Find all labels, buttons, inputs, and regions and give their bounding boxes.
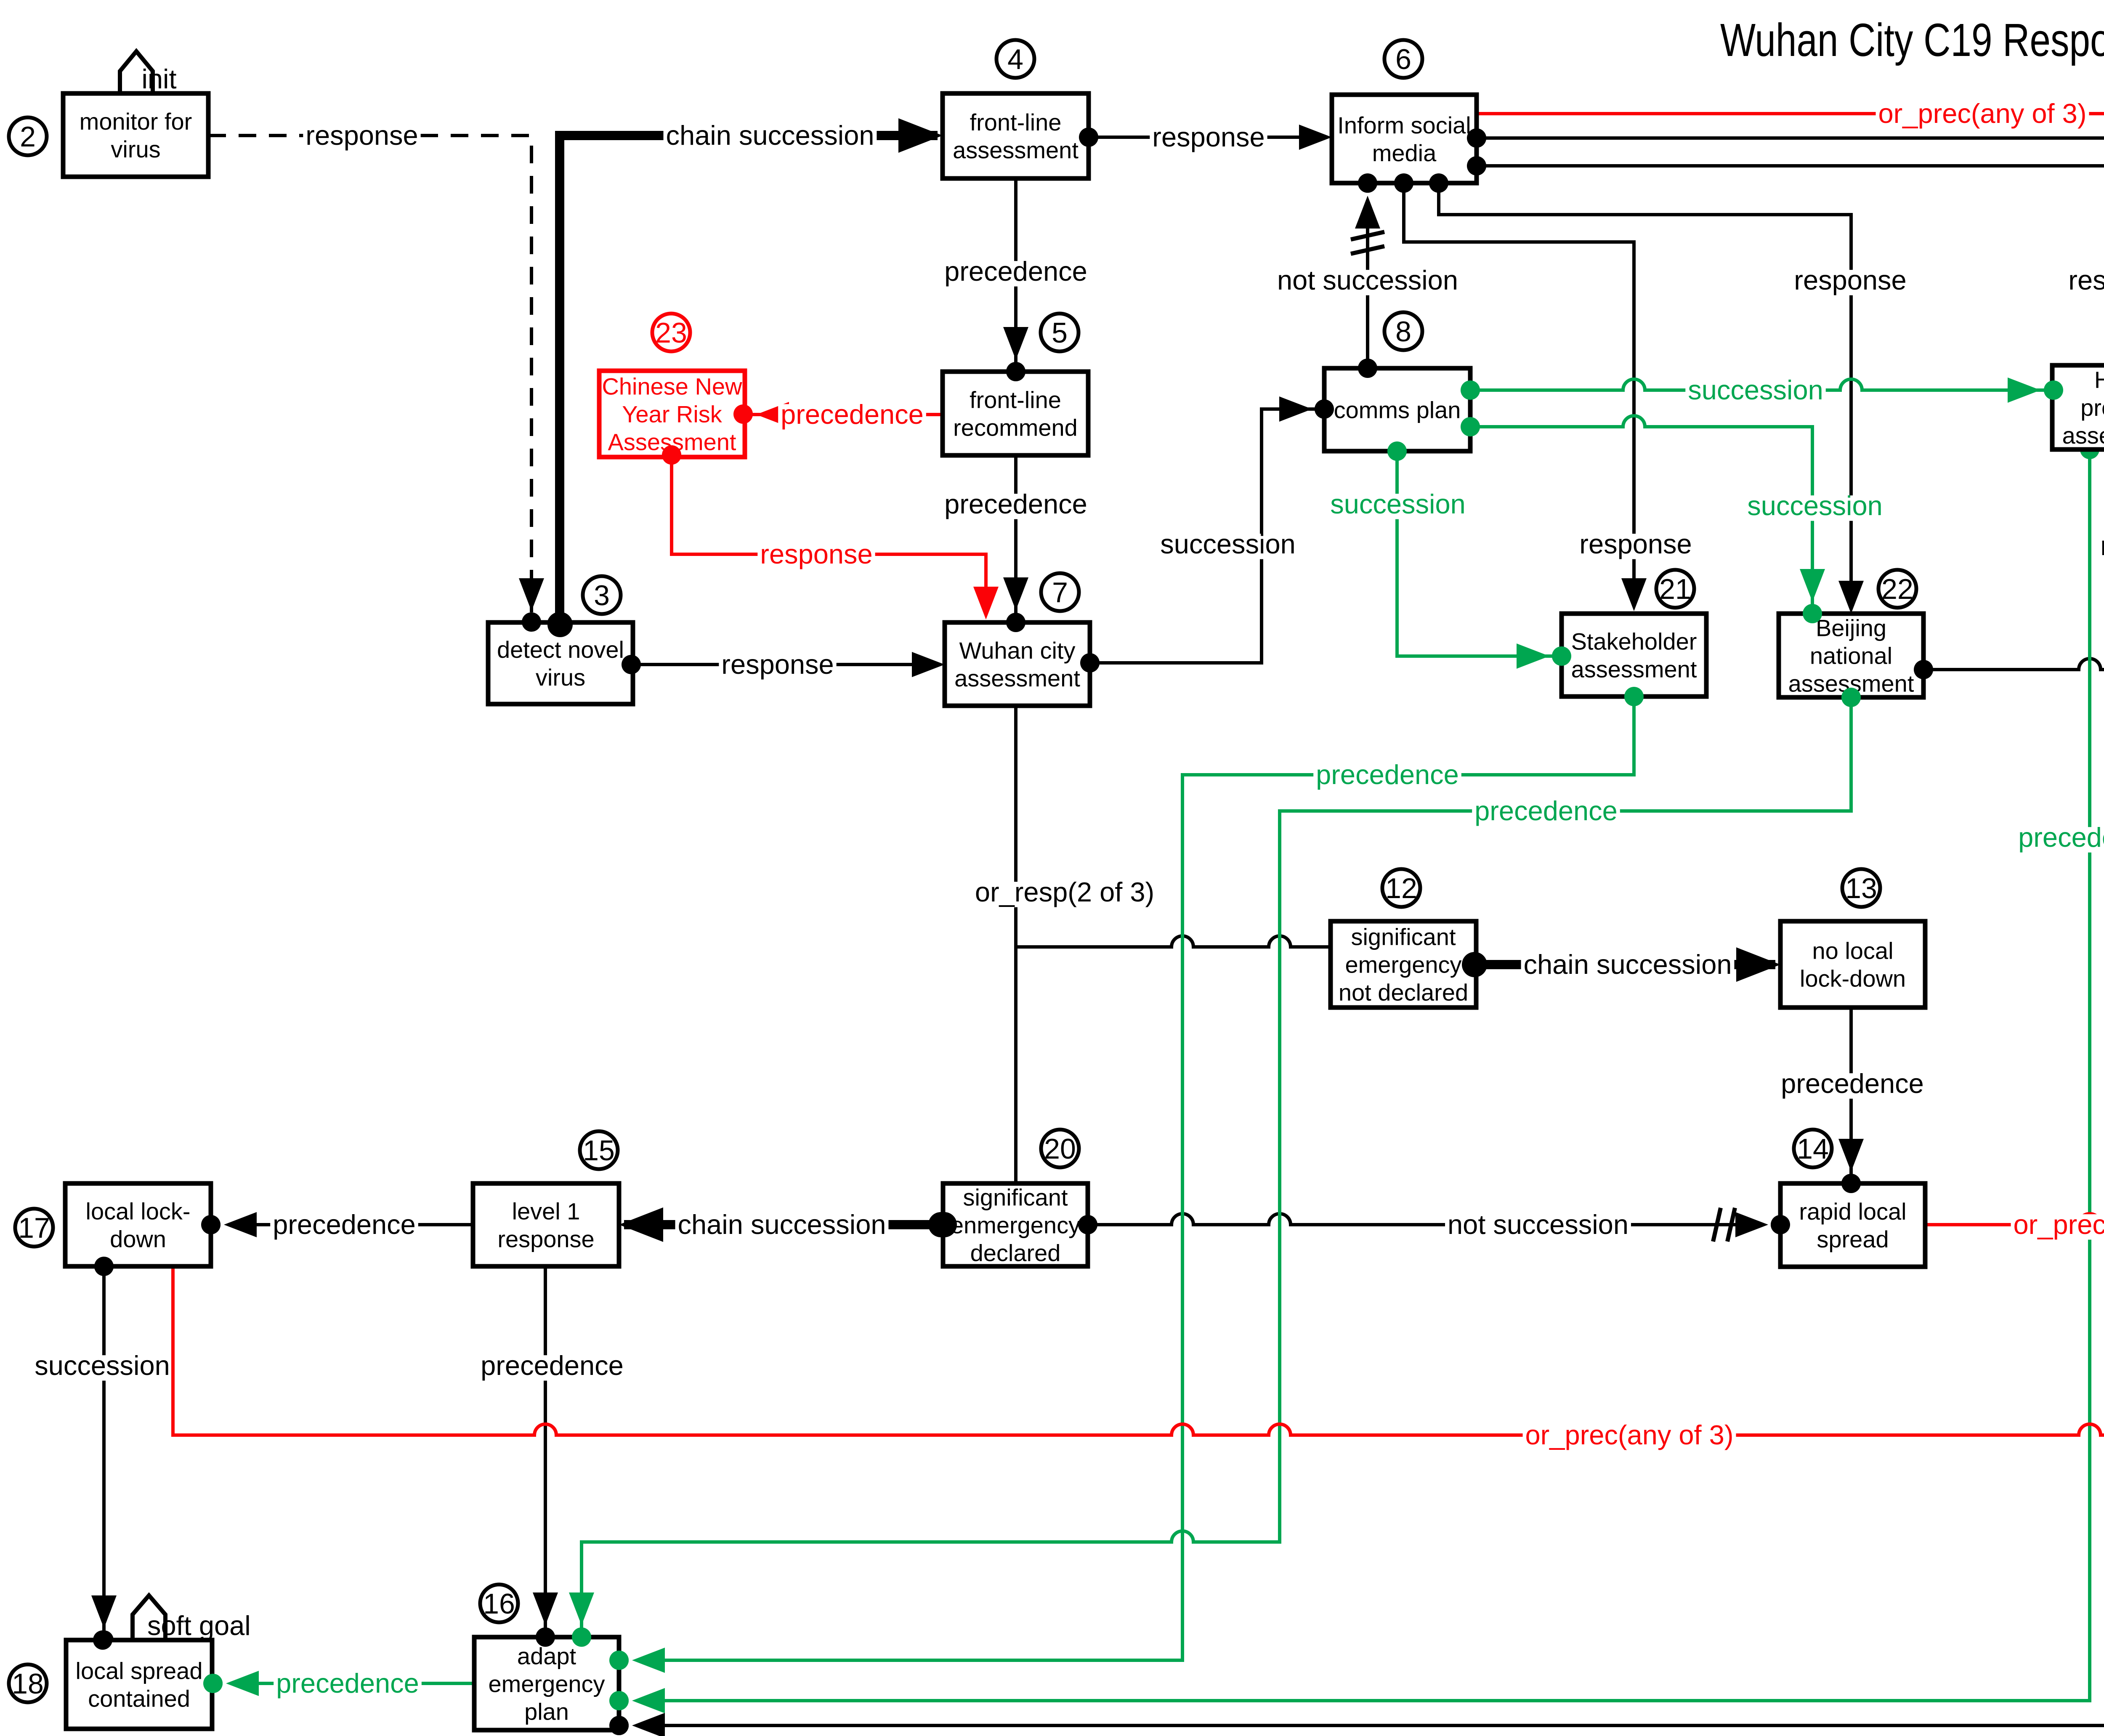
- number 22: [1878, 570, 1916, 608]
- svg-text:Chinese New: Chinese New: [602, 373, 742, 400]
- edge response 23->7 (red): [672, 457, 986, 615]
- edge or_prec 14->24 (red, mid): [1925, 952, 2104, 1225]
- svg-text:enmergency: enmergency: [951, 1212, 1080, 1239]
- edge precedence 21->16 (green): [655, 697, 1634, 1660]
- number 16: [480, 1584, 518, 1622]
- svg-text:chain succession: chain succession: [1524, 949, 1732, 980]
- svg-text:succession: succession: [1160, 529, 1296, 559]
- edge precedence 9->16 (green): [655, 449, 2090, 1701]
- label response 4->6: [1150, 122, 1267, 152]
- svg-text:init: init: [141, 64, 176, 94]
- svg-text:level 1: level 1: [512, 1198, 580, 1225]
- label response 6->21: [1577, 529, 1694, 559]
- svg-text:response: response: [306, 120, 418, 151]
- activity 16: adapt emergency plan: [474, 1637, 619, 1730]
- edge or_prec 17->24 (red, bottom): [173, 962, 2104, 1435]
- edge response 6->22: [1439, 183, 1851, 609]
- edge precedence 5->7: [1014, 455, 1017, 615]
- edge precedence 5->23 (red): [752, 413, 943, 416]
- dots on box 23: [733, 404, 753, 424]
- svg-text:down: down: [110, 1226, 166, 1252]
- label precedence 15->17: [270, 1209, 418, 1240]
- dot on box 4 right: [1079, 128, 1098, 147]
- label chain succession 3->4: [664, 120, 877, 151]
- edge or_prec 6->24 (red, top): [1477, 114, 2104, 962]
- svg-text:succession: succession: [1330, 489, 1466, 519]
- dots on box 16: [536, 1627, 555, 1647]
- svg-text:precedence: precedence: [273, 1209, 416, 1240]
- svg-text:or_prec(any of 3): or_prec(any of 3): [1525, 1420, 1734, 1450]
- edge response 4->6: [1089, 136, 1327, 139]
- edge precedence 15->17: [247, 1223, 473, 1226]
- label or_prec mid: [2011, 1209, 2104, 1240]
- svg-text:precedence: precedence: [481, 1350, 624, 1381]
- number 17: [15, 1209, 53, 1247]
- dots on box 21: [1552, 646, 1571, 666]
- label not succession 20->14: [1445, 1209, 1631, 1240]
- number 20: [1041, 1130, 1079, 1167]
- svg-text:lock-down: lock-down: [1800, 965, 1906, 992]
- label response 2->3: [303, 120, 420, 151]
- activity 3: detect novel virus: [488, 622, 633, 704]
- svg-text:precedence: precedence: [1316, 759, 1459, 790]
- svg-text:spread: spread: [1817, 1226, 1889, 1252]
- svg-text:emergency: emergency: [488, 1671, 605, 1697]
- svg-text:succession: succession: [1747, 490, 1883, 521]
- svg-text:local spread: local spread: [76, 1658, 203, 1684]
- svg-text:no local: no local: [1812, 938, 1893, 964]
- edge succession 17->18: [102, 1266, 106, 1636]
- edge response 2->3 (dashed): [208, 136, 531, 612]
- label response 9->10: [2098, 530, 2104, 561]
- edge response 6->21: [1404, 183, 1634, 607]
- activity 15: level 1 response: [473, 1183, 619, 1266]
- edge not succession 8->6: [1366, 200, 1369, 368]
- svg-text:precedence: precedence: [1781, 1068, 1924, 1099]
- edge precedence 13->14: [1849, 1008, 1853, 1177]
- label response 6->22: [1791, 265, 1909, 295]
- dots on box 3: [522, 612, 541, 632]
- svg-text:or_resp(2 of 3): or_resp(2 of 3): [975, 877, 1154, 907]
- dots on box 20: [932, 1212, 957, 1237]
- edge response 3->7: [631, 663, 940, 666]
- number 5: [1041, 314, 1079, 351]
- svg-text:21: 21: [1659, 573, 1691, 605]
- svg-text:assessment: assessment: [954, 665, 1080, 691]
- soft goal 18: local spread contained: [66, 1640, 212, 1729]
- svg-text:assessment: assessment: [1571, 656, 1697, 683]
- svg-text:3: 3: [594, 580, 610, 611]
- edge precedence 15->16: [544, 1266, 547, 1630]
- svg-text:virus: virus: [111, 136, 160, 162]
- svg-text:response: response: [1579, 529, 1692, 559]
- svg-text:15: 15: [583, 1135, 615, 1167]
- svg-text:succession: succession: [1688, 375, 1823, 405]
- svg-text:chain succession: chain succession: [666, 120, 874, 151]
- activity 2: monitor for virus: [63, 93, 208, 177]
- label precedence 4->5: [942, 256, 1090, 287]
- svg-text:front-line: front-line: [970, 387, 1061, 413]
- svg-text:Inform social: Inform social: [1337, 112, 1471, 138]
- init marker on box 2: [120, 51, 153, 98]
- dot on box 5 top: [1006, 362, 1025, 381]
- label chain succession 20->15: [675, 1209, 889, 1240]
- edge succession 8->9 (green): [1470, 379, 2048, 390]
- svg-text:precedence: precedence: [2018, 822, 2104, 853]
- svg-text:detect novel: detect novel: [497, 636, 624, 663]
- svg-text:emergency: emergency: [1345, 952, 1461, 978]
- label precedence 13->14: [1778, 1068, 1926, 1099]
- svg-text:18: 18: [12, 1668, 44, 1700]
- label response 3->7: [719, 649, 836, 680]
- number 12: [1382, 869, 1420, 907]
- svg-text:Year Risk: Year Risk: [622, 401, 723, 428]
- activity 6: Inform social media: [1332, 95, 1477, 183]
- svg-text:local lock-: local lock-: [86, 1198, 191, 1225]
- edge or_resp 7->20: [1014, 706, 1017, 1183]
- svg-text:13: 13: [1845, 872, 1877, 904]
- label or_resp(2 of 3): [972, 877, 1157, 907]
- dots on box 14: [1841, 1174, 1861, 1193]
- svg-text:media: media: [1372, 140, 1437, 166]
- svg-text:response: response: [760, 539, 872, 569]
- svg-text:precedence: precedence: [1474, 795, 1618, 826]
- number 8: [1384, 312, 1422, 350]
- svg-text:front-line: front-line: [970, 109, 1062, 136]
- svg-text:not succession: not succession: [1448, 1209, 1628, 1240]
- svg-text:chain succession: chain succession: [678, 1209, 886, 1240]
- label succession 8->22: [1745, 490, 1885, 521]
- svg-text:12: 12: [1385, 872, 1417, 904]
- svg-text:succession: succession: [35, 1350, 170, 1381]
- edge or_resp branch ->12: [1016, 936, 1331, 947]
- activity 9: Hubei province assessment: [2052, 365, 2104, 449]
- edge chain succession 20->15: [624, 1220, 941, 1229]
- edge chain succession 12->13: [1474, 960, 1775, 969]
- dots on box 7: [1006, 613, 1025, 632]
- svg-text:22: 22: [1881, 573, 1913, 605]
- svg-text:response: response: [1152, 122, 1265, 152]
- dot on box 12 right: [1462, 952, 1487, 977]
- svg-text:response: response: [2068, 265, 2104, 295]
- label precedence 22->16: [1472, 795, 1620, 826]
- label response 6->9: [2066, 265, 2104, 295]
- svg-text:significant: significant: [963, 1184, 1068, 1211]
- svg-text:not declared: not declared: [1339, 979, 1468, 1006]
- activity 4: front-line assessment: [943, 93, 1089, 178]
- svg-text:14: 14: [1797, 1133, 1829, 1165]
- edge precedence 10->16: [655, 697, 2104, 1725]
- label precedence 16->18: [274, 1668, 422, 1699]
- svg-text:2: 2: [20, 121, 36, 153]
- edge succession 8->22 (green): [1470, 416, 1812, 608]
- edge not succession 20->14: [1088, 1214, 1744, 1225]
- svg-text:monitor for: monitor for: [80, 108, 192, 135]
- svg-text:response: response: [2100, 530, 2104, 561]
- svg-text:Hubei: Hubei: [2094, 367, 2104, 393]
- svg-text:or_prec(any of 3): or_prec(any of 3): [2014, 1209, 2104, 1240]
- svg-text:virus: virus: [536, 664, 585, 691]
- number 15: [580, 1131, 618, 1169]
- number 4: [996, 40, 1034, 78]
- svg-text:precedence: precedence: [944, 489, 1087, 519]
- number 13: [1842, 869, 1880, 907]
- label not succession 8->6: [1275, 265, 1461, 295]
- svg-text:23: 23: [655, 317, 687, 349]
- dots on box 9: [2044, 380, 2063, 400]
- svg-text:precedence: precedence: [944, 256, 1087, 287]
- svg-text:assessment: assessment: [953, 137, 1079, 163]
- svg-text:Wuhan city: Wuhan city: [959, 637, 1076, 664]
- activity 8: comms plan: [1324, 368, 1470, 451]
- activity 7: Wuhan city assessment: [945, 622, 1090, 706]
- number 6: [1384, 40, 1422, 78]
- svg-text:response: response: [497, 1226, 594, 1252]
- edge precedence 16->18 (green): [249, 1682, 474, 1685]
- soft goal marker on box 18: [133, 1595, 165, 1641]
- dots on box 22: [1803, 604, 1822, 623]
- number 14: [1794, 1130, 1832, 1167]
- svg-text:Beijing: Beijing: [1816, 615, 1886, 641]
- svg-text:recommend: recommend: [953, 415, 1078, 441]
- svg-text:plan: plan: [524, 1699, 569, 1725]
- label response 23->7: [757, 539, 875, 569]
- label succession 17->18: [32, 1350, 172, 1381]
- activity 5: front-line recommend: [943, 372, 1088, 455]
- svg-text:8: 8: [1395, 316, 1411, 348]
- label or_prec top: [1876, 98, 2089, 129]
- svg-text:significant: significant: [1351, 924, 1456, 950]
- svg-text:soft goal: soft goal: [147, 1610, 251, 1641]
- dots on box 17: [201, 1215, 220, 1234]
- edge succession 7->8: [1090, 409, 1319, 663]
- number 2: [9, 117, 47, 155]
- svg-text:rapid local: rapid local: [1799, 1198, 1906, 1225]
- activity 12: significant emergency not declared: [1331, 921, 1476, 1008]
- svg-text:comms plan: comms plan: [1334, 397, 1461, 423]
- svg-text:declared: declared: [970, 1240, 1061, 1266]
- svg-text:national: national: [1810, 643, 1892, 669]
- edge chain succession 3->4: [560, 136, 938, 622]
- svg-text:not succession: not succession: [1277, 265, 1458, 295]
- label succession 7->8: [1158, 529, 1298, 559]
- label or_prec bottom: [1523, 1420, 1736, 1450]
- label succession 8->9: [1685, 375, 1825, 405]
- label precedence 5->23: [778, 399, 926, 430]
- activity 13: no local lock-down: [1780, 921, 1925, 1008]
- svg-text:precedence: precedence: [276, 1668, 419, 1699]
- number 18: [9, 1664, 47, 1702]
- activity 21: Stakeholder assessment: [1562, 614, 1706, 697]
- label precedence 15->16: [478, 1350, 626, 1381]
- dots on box 18: [93, 1630, 112, 1650]
- edge response 22->10: [1923, 659, 2104, 670]
- edge response 6->9: [1477, 138, 2104, 361]
- svg-text:16: 16: [483, 1588, 515, 1620]
- svg-text:precedence: precedence: [781, 399, 924, 430]
- edge succession 8->21 (green): [1397, 451, 1557, 656]
- svg-text:Wuhan City C19 Response “as-is: Wuhan City C19 Response “as-is” v5v.R1c(…: [1720, 14, 2104, 66]
- activity 17: local lock-down: [65, 1183, 211, 1266]
- svg-text:20: 20: [1044, 1133, 1076, 1165]
- activity 20: significant enmergency declared: [943, 1183, 1088, 1266]
- dots on box 6: [1358, 173, 1377, 193]
- edge precedence 4->5: [1014, 178, 1017, 363]
- activity 14: rapid local spread: [1780, 1183, 1925, 1267]
- svg-text:6: 6: [1395, 43, 1411, 75]
- svg-text:response: response: [1794, 265, 1906, 295]
- label precedence 5->7: [942, 489, 1090, 519]
- svg-text:or_prec(any of 3): or_prec(any of 3): [1878, 98, 2087, 129]
- svg-text:assessment: assessment: [2062, 422, 2104, 449]
- number 23 (red): [652, 314, 690, 351]
- number 7: [1041, 573, 1079, 611]
- activity 23: Chinese New Year Risk Assessment (red): [599, 371, 745, 457]
- svg-text:7: 7: [1052, 577, 1068, 609]
- label precedence 9->16: [2016, 822, 2104, 853]
- svg-text:province: province: [2080, 394, 2104, 421]
- label succession 8->21: [1328, 489, 1468, 519]
- svg-text:17: 17: [18, 1212, 50, 1244]
- number 3: [583, 576, 621, 614]
- svg-text:5: 5: [1052, 317, 1068, 349]
- edge response 6->10: [1477, 166, 2104, 611]
- dots on box 8: [1315, 399, 1334, 419]
- edge precedence 22->16 (green): [582, 697, 1851, 1630]
- svg-text:contained: contained: [88, 1685, 190, 1712]
- svg-text:response: response: [721, 649, 834, 680]
- svg-text:adapt: adapt: [517, 1643, 576, 1670]
- label precedence 21->16: [1313, 759, 1461, 790]
- svg-text:Stakeholder: Stakeholder: [1571, 628, 1697, 655]
- number 21: [1656, 570, 1694, 608]
- activity 22: Beijing national assessment: [1779, 614, 1923, 697]
- svg-text:4: 4: [1007, 43, 1023, 75]
- label chain succession 12->13: [1521, 949, 1735, 980]
